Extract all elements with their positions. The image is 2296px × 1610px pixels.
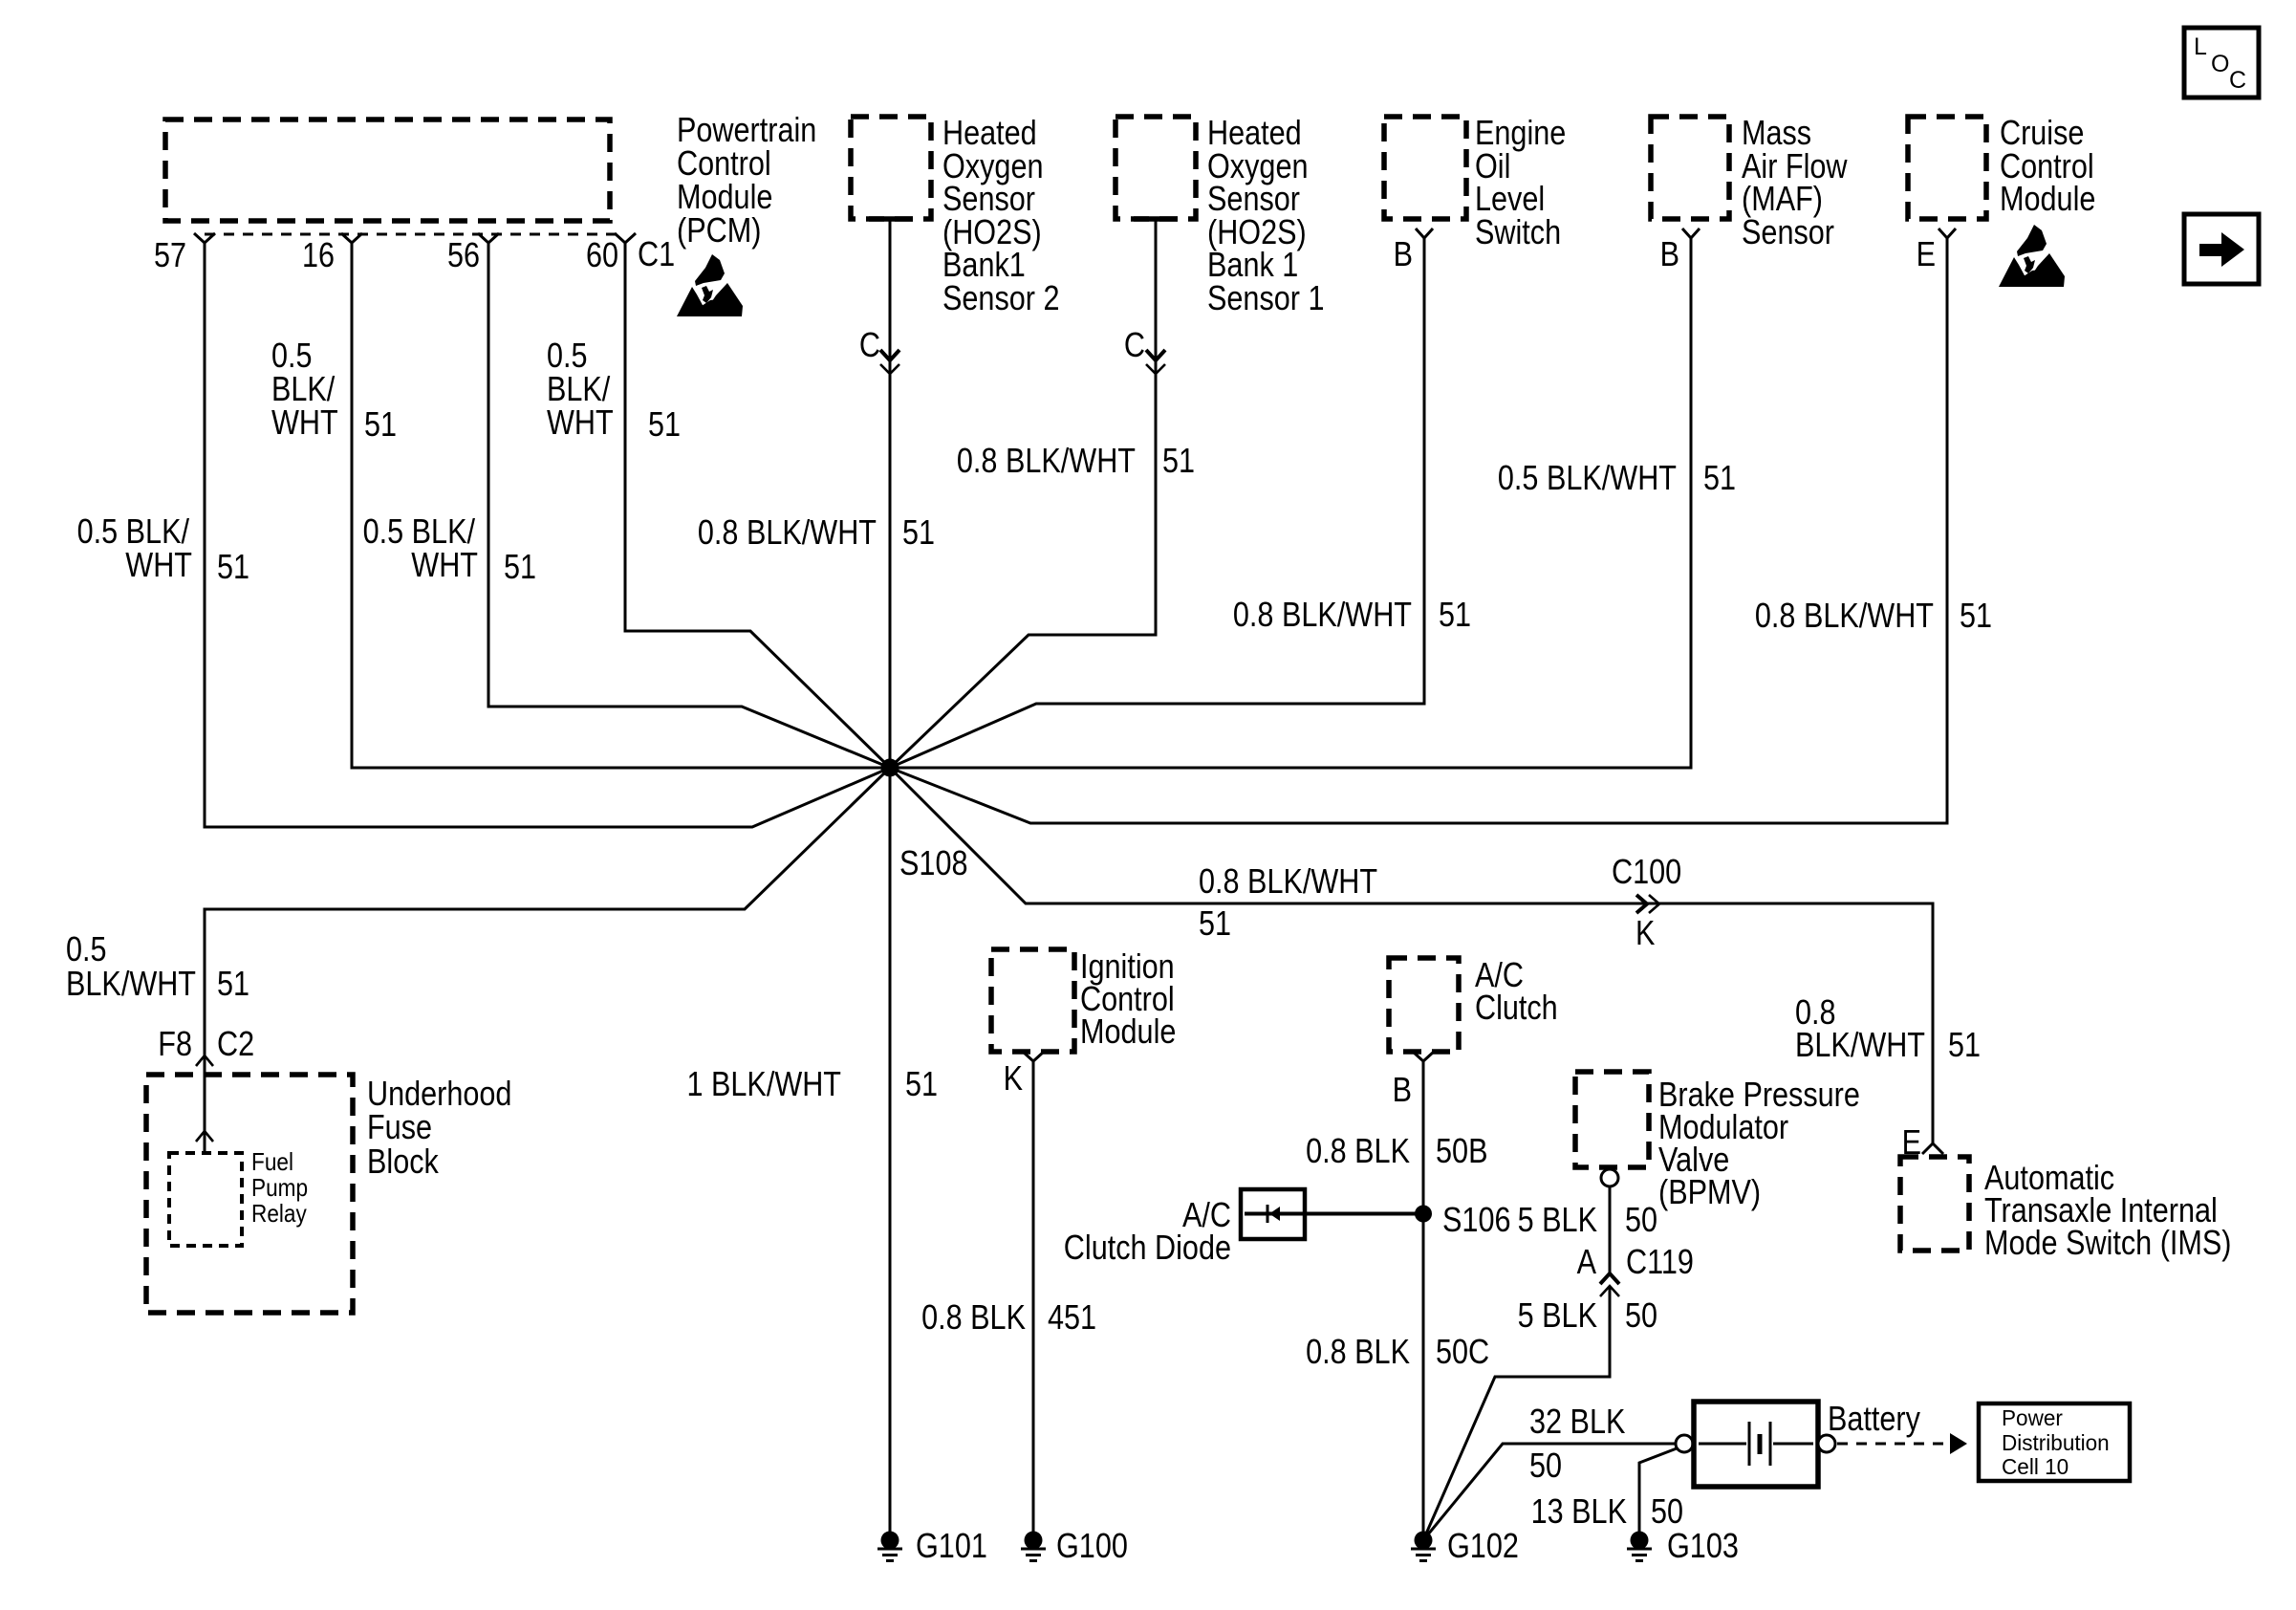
svg-text:C2: C2: [217, 1024, 254, 1063]
IMS pin Y arrow: [1922, 1143, 1943, 1154]
wire HO2S sensor1 to S108: [890, 219, 1156, 768]
cruise pin Y arrow: [1939, 228, 1956, 238]
in-line connector C arrows (HO2S sensor2 wire): [880, 350, 899, 374]
powertrain control module PCM dashed box: [165, 120, 610, 221]
svg-text:A: A: [1577, 1242, 1596, 1281]
connector C100 chevrons: [1636, 895, 1659, 913]
svg-text:S108: S108: [899, 843, 968, 882]
svg-text:51: 51: [1439, 595, 1471, 634]
svg-text:51: 51: [1162, 441, 1195, 480]
svg-text:51: 51: [1703, 458, 1736, 497]
dashed wire battery to power distribution: [1837, 1433, 1967, 1454]
wire label 5 BLK 50 (upper): [1518, 1200, 1657, 1239]
svg-text:0.5: 0.5: [66, 929, 107, 968]
svg-text:451: 451: [1048, 1297, 1096, 1337]
svg-text:57: 57: [154, 235, 186, 274]
wire battery to G103 (13 BLK 50): [1639, 1448, 1677, 1532]
connector C119 chevrons: [1600, 1273, 1619, 1296]
connector arrow to fuel pump relay: [196, 1131, 213, 1142]
svg-text:Block: Block: [367, 1142, 440, 1181]
svg-text:60: 60: [586, 235, 618, 274]
svg-text:51: 51: [1960, 596, 1992, 635]
svg-text:WHT: WHT: [547, 402, 614, 442]
svg-text:K: K: [1635, 913, 1655, 952]
svg-text:0.8 BLK/WHT: 0.8 BLK/WHT: [698, 512, 877, 552]
wire label 0.5 BLK/WHT 51 (pin 60): [547, 336, 681, 444]
ground G101: [877, 1532, 902, 1561]
wire label 0.8 BLK 451: [921, 1297, 1096, 1337]
svg-text:K: K: [1004, 1058, 1023, 1098]
svg-text:1 BLK/WHT: 1 BLK/WHT: [687, 1064, 842, 1103]
wire label 0.8 BLK/WHT 51 (C100 to IMS): [1795, 992, 1981, 1064]
svg-text:BLK/WHT: BLK/WHT: [66, 964, 196, 1003]
svg-text:WHT: WHT: [271, 402, 338, 442]
engine oil level switch pin Y arrow: [1416, 228, 1433, 238]
svg-text:BLK/WHT: BLK/WHT: [1795, 1025, 1925, 1064]
svg-text:B: B: [1394, 234, 1413, 273]
fuel pump relay dashed box: [169, 1153, 242, 1246]
wire label 32 BLK 50: [1529, 1402, 1625, 1485]
svg-text:50B: 50B: [1436, 1131, 1488, 1170]
pin 57 Y arrow: [194, 233, 215, 243]
wire label 0.8 BLK 50B: [1306, 1131, 1487, 1170]
svg-text:50: 50: [1651, 1491, 1683, 1531]
arrow reference box: [2184, 214, 2259, 284]
svg-text:Sensor 2: Sensor 2: [942, 278, 1060, 317]
svg-text:16: 16: [302, 235, 335, 274]
wire battery to G102 (32 BLK 50): [1423, 1444, 1676, 1540]
wire label 0.8 BLK/WHT 51 (HO2S sensor2): [698, 512, 935, 552]
svg-text:Mode Switch (IMS): Mode Switch (IMS): [1984, 1223, 2232, 1262]
svg-text:C119: C119: [1626, 1242, 1694, 1281]
battery box: [1694, 1402, 1818, 1487]
A/C clutch dashed box: [1389, 958, 1459, 1052]
wire S108 to underhood fuse block: [205, 768, 890, 1153]
svg-text:Switch: Switch: [1475, 212, 1561, 251]
svg-text:G100: G100: [1056, 1526, 1128, 1565]
wire A/C clutch to G102: [1422, 1061, 1425, 1532]
diode symbol: [1267, 1205, 1280, 1223]
svg-text:56: 56: [447, 235, 480, 274]
cruise control module label: [2000, 113, 2095, 218]
connector arrow into fuse block: [196, 1055, 213, 1066]
MAF sensor label: [1742, 113, 1848, 251]
BPMV label: [1658, 1075, 1860, 1211]
wire label 0.8 BLK 50C: [1306, 1332, 1489, 1371]
C1 connector dashed line: [205, 233, 625, 236]
svg-text:C100: C100: [1612, 852, 1681, 891]
svg-text:Fuel: Fuel: [251, 1147, 293, 1176]
svg-text:(BPMV): (BPMV): [1658, 1172, 1761, 1211]
ground G103: [1627, 1532, 1652, 1561]
wire C119 to G102: [1423, 1286, 1610, 1540]
splice node S106: [1415, 1206, 1432, 1223]
A/C clutch pin Y arrow: [1413, 1052, 1434, 1061]
svg-text:C1: C1: [638, 234, 675, 273]
svg-text:0.8 BLK/WHT: 0.8 BLK/WHT: [1199, 861, 1377, 901]
svg-text:C: C: [1124, 325, 1145, 364]
svg-text:Module: Module: [1080, 1012, 1176, 1051]
wire label 5 BLK 50 (lower): [1518, 1295, 1657, 1335]
svg-text:51: 51: [1948, 1025, 1981, 1064]
heated oxygen sensor HO2S bank1 sensor2 dashed box: [851, 117, 931, 219]
svg-text:Cell 10: Cell 10: [2002, 1454, 2069, 1479]
svg-text:0.8 BLK: 0.8 BLK: [921, 1297, 1026, 1337]
BPMV pin circle: [1601, 1169, 1618, 1186]
wire label 0.5 BLK/WHT 51 (underhood fuse block feed): [66, 929, 249, 1003]
fuel pump relay label: [251, 1147, 308, 1228]
svg-text:G103: G103: [1667, 1526, 1739, 1565]
in-line connector C arrows (HO2S sensor1 wire): [1146, 350, 1165, 374]
wire label 0.8 BLK/WHT 51 (S108 to C100): [1199, 861, 1377, 943]
ground G102: [1411, 1532, 1436, 1561]
wire engine oil level switch to S108: [890, 238, 1424, 768]
engine oil level switch dashed box: [1384, 117, 1466, 219]
svg-text:Distribution: Distribution: [2002, 1430, 2110, 1455]
wire BPMV to C119: [1609, 1186, 1612, 1273]
svg-text:13 BLK: 13 BLK: [1531, 1491, 1627, 1531]
wire ICM to G100: [1032, 1061, 1035, 1532]
svg-text:51: 51: [1199, 903, 1231, 943]
wire PCM pin 56 to S108: [488, 243, 890, 768]
svg-text:50: 50: [1625, 1295, 1657, 1335]
svg-text:0.8 BLK/WHT: 0.8 BLK/WHT: [957, 441, 1136, 480]
battery left terminal circle: [1676, 1435, 1693, 1452]
power distribution cell 10 box: [1979, 1403, 2130, 1481]
svg-text:0.8 BLK/WHT: 0.8 BLK/WHT: [1233, 595, 1412, 634]
svg-text:Battery: Battery: [1828, 1399, 1920, 1438]
wire label 0.8 BLK/WHT 51 (engine oil level switch): [1233, 595, 1471, 634]
svg-text:0.8 BLK: 0.8 BLK: [1306, 1131, 1410, 1170]
svg-text:S106: S106: [1442, 1200, 1511, 1239]
svg-text:Pump: Pump: [251, 1173, 308, 1202]
svg-text:51: 51: [217, 547, 249, 586]
A/C clutch diode box: [1241, 1189, 1305, 1239]
svg-text:WHT: WHT: [411, 545, 478, 584]
svg-text:51: 51: [217, 964, 249, 1003]
svg-text:C: C: [2229, 67, 2246, 94]
wire cruise control module to S108: [890, 238, 1947, 823]
wire label 0.5 BLK/WHT 51 (pin 57): [77, 511, 249, 586]
pin 56 Y arrow: [478, 233, 499, 243]
svg-text:51: 51: [364, 404, 397, 444]
cruise control module dashed box: [1908, 117, 1986, 219]
svg-text:Module: Module: [2000, 179, 2095, 218]
wire diode to S106: [1245, 1212, 1423, 1216]
pin 60 Y arrow: [615, 233, 636, 243]
A/C clutch diode label: [1064, 1195, 1231, 1267]
A/C clutch label: [1475, 955, 1558, 1027]
svg-text:Clutch: Clutch: [1475, 988, 1558, 1027]
S108 splice node: [881, 759, 899, 777]
wire label 0.8 BLK/WHT 51 (cruise): [1755, 596, 1992, 635]
automatic transaxle internal mode switch dashed box: [1900, 1157, 1969, 1251]
engine oil level switch label: [1475, 113, 1566, 251]
svg-text:5 BLK: 5 BLK: [1518, 1295, 1597, 1335]
HO2S bank1 sensor1 label: [1207, 113, 1325, 317]
ESD symbol (cruise): [1999, 225, 2065, 287]
svg-text:0.8 BLK: 0.8 BLK: [1306, 1332, 1410, 1371]
LOC reference box: [2184, 28, 2259, 98]
wire S108 to C100 to IMS: [890, 768, 1933, 1143]
ground G100: [1021, 1532, 1046, 1561]
svg-text:51: 51: [504, 547, 536, 586]
svg-text:50: 50: [1625, 1200, 1657, 1239]
wire label 1 BLK/WHT 51 (S108 to G101): [687, 1064, 939, 1103]
MAF pin Y arrow: [1682, 228, 1700, 238]
svg-text:C: C: [859, 325, 880, 364]
battery right terminal circle: [1818, 1435, 1835, 1452]
svg-text:51: 51: [648, 404, 681, 444]
svg-text:Sensor 1: Sensor 1: [1207, 278, 1325, 317]
ICM pin Y arrow: [1023, 1052, 1044, 1061]
wire label 13 BLK 50: [1531, 1491, 1683, 1531]
svg-text:F8: F8: [158, 1024, 192, 1063]
underhood fuse block label: [367, 1074, 511, 1181]
svg-text:O: O: [2211, 51, 2229, 77]
pin 16 Y arrow: [341, 233, 362, 243]
svg-text:51: 51: [902, 512, 935, 552]
wire PCM pin 16 to S108: [352, 243, 890, 768]
label A C119: [1577, 1242, 1694, 1281]
power distribution label: [2002, 1405, 2110, 1479]
svg-text:5 BLK: 5 BLK: [1518, 1200, 1597, 1239]
wire label 0.5 BLK/WHT 51 (MAF): [1498, 458, 1736, 497]
battery symbol: [1699, 1422, 1813, 1466]
svg-text:(PCM): (PCM): [677, 210, 761, 250]
svg-text:B: B: [1393, 1070, 1412, 1109]
ignition control module dashed box: [991, 949, 1074, 1052]
svg-text:Power: Power: [2002, 1405, 2063, 1430]
HO2S bank1 sensor2 label: [942, 113, 1060, 317]
svg-text:51: 51: [905, 1064, 938, 1103]
svg-text:0.8 BLK/WHT: 0.8 BLK/WHT: [1755, 596, 1934, 635]
mass air flow MAF sensor dashed box: [1651, 117, 1729, 219]
brake pressure modulator valve dashed box: [1575, 1072, 1649, 1167]
IMS label: [1984, 1158, 2232, 1262]
wire label 0.8 BLK/WHT 51 (HO2S sensor1): [957, 441, 1195, 480]
svg-text:Sensor: Sensor: [1742, 212, 1834, 251]
ESD symbol (PCM): [677, 254, 743, 316]
svg-text:Fuse: Fuse: [367, 1107, 432, 1146]
svg-text:G102: G102: [1447, 1526, 1519, 1565]
wire PCM pin 57 to S108: [205, 243, 890, 827]
svg-text:50: 50: [1529, 1446, 1562, 1485]
svg-text:50C: 50C: [1436, 1332, 1489, 1371]
PCM label: [677, 110, 816, 250]
svg-text:WHT: WHT: [125, 545, 192, 584]
wire label 0.5 BLK/WHT 51 (pin 56): [363, 511, 536, 586]
ignition control module label: [1080, 946, 1176, 1051]
svg-text:B: B: [1660, 234, 1679, 273]
svg-text:Relay: Relay: [251, 1199, 307, 1228]
svg-text:Clutch Diode: Clutch Diode: [1064, 1228, 1231, 1267]
wire PCM pin 60 to S108: [625, 243, 890, 768]
heated oxygen sensor HO2S bank1 sensor1 dashed box: [1116, 117, 1196, 219]
svg-text:E: E: [1917, 234, 1936, 273]
wire HO2S sensor2 to S108 to G101: [889, 219, 892, 1532]
underhood fuse block dashed box: [146, 1075, 353, 1313]
wire label 0.5 BLK/WHT 51 (pin 16): [271, 336, 397, 444]
svg-text:L: L: [2194, 33, 2207, 60]
svg-text:32 BLK: 32 BLK: [1529, 1402, 1625, 1441]
svg-text:0.5 BLK/WHT: 0.5 BLK/WHT: [1498, 458, 1677, 497]
svg-text:G101: G101: [916, 1526, 987, 1565]
wire MAF sensor to S108: [890, 238, 1691, 768]
